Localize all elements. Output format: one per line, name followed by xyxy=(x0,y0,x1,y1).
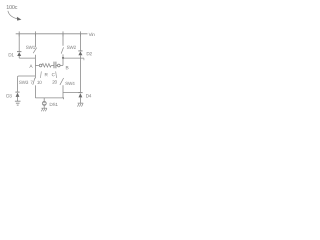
source DS1 xyxy=(42,101,46,108)
label SW2 xyxy=(67,46,76,49)
Vin rail xyxy=(16,33,88,35)
switch SW4 xyxy=(60,78,64,98)
bottom wire xyxy=(35,98,63,99)
switch SW2 xyxy=(61,34,63,66)
wire R to C xyxy=(51,64,54,66)
terminal circle at A xyxy=(39,64,42,67)
rail junction tick at D2 leg xyxy=(79,31,81,36)
rail junction tick at SW1 leg xyxy=(34,31,36,36)
wire node A to terminal xyxy=(35,64,39,66)
diode D1 xyxy=(17,52,21,59)
wire C to terminal xyxy=(56,64,58,66)
wire right outer leg xyxy=(79,58,81,92)
label R xyxy=(45,73,48,76)
label SW4 xyxy=(65,82,74,85)
wire D1-SW1 join xyxy=(19,57,35,59)
ref numeral 20 xyxy=(52,80,57,83)
chassis ground under DS1 xyxy=(41,108,47,111)
label D3 xyxy=(7,94,12,97)
diode D3 xyxy=(15,92,19,101)
label DS1 xyxy=(50,103,58,106)
wire terminal to node B xyxy=(60,64,63,66)
terminal circle at B xyxy=(58,64,61,67)
capacitor C xyxy=(54,62,56,69)
node A label xyxy=(29,65,32,68)
diode D4 xyxy=(78,93,82,103)
switch SW1 xyxy=(33,34,37,66)
wire SW4-D4 join xyxy=(63,91,80,93)
wire D1 leg upper xyxy=(18,34,20,52)
label C xyxy=(52,73,55,76)
wire stub right of join xyxy=(83,58,85,60)
chassis ground under D4 xyxy=(78,103,84,107)
leader stroke right of C xyxy=(55,71,58,78)
wire DS1 stub xyxy=(43,98,45,102)
leader arrow for 100c xyxy=(8,11,18,19)
label SW1 xyxy=(26,46,35,49)
diode D2 xyxy=(78,51,82,58)
wire D2 leg upper xyxy=(79,34,81,51)
leader stroke left of R xyxy=(40,71,43,78)
wire D3-SW3 join xyxy=(18,76,36,77)
label D1 xyxy=(9,53,14,56)
net label Vin xyxy=(89,33,95,36)
switch SW3 xyxy=(33,65,36,98)
rail junction tick at D1 leg xyxy=(18,31,20,36)
resistor R xyxy=(42,64,52,68)
label SW3 xyxy=(19,81,28,84)
label D2 xyxy=(87,52,92,55)
wire SW2-D2 join xyxy=(63,57,84,59)
arrowhead of leader xyxy=(17,17,22,21)
node B label xyxy=(66,66,69,69)
label D4 xyxy=(86,94,91,97)
figure label 100c xyxy=(7,5,18,9)
node B junction dot xyxy=(62,57,64,59)
ground under D3 xyxy=(15,101,21,105)
wire D3 leg xyxy=(17,77,19,92)
rail junction tick at SW2 leg xyxy=(62,31,64,36)
ref numeral 7 xyxy=(31,81,33,84)
ref numeral 10 xyxy=(37,81,41,84)
